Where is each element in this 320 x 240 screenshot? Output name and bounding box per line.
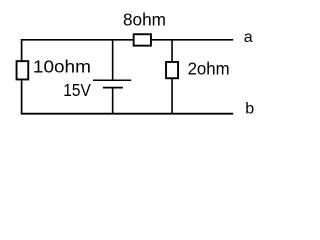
wire left vertical branch	[21, 39, 23, 115]
resistor R1 10ohm box	[17, 61, 29, 79]
svg-text:8ohm: 8ohm	[123, 10, 166, 30]
top wire (node a rail)	[21, 39, 233, 41]
svg-text:b: b	[245, 100, 254, 117]
wire battery branch top	[112, 39, 114, 80]
wire right vertical branch	[171, 39, 173, 114]
svg-text:a: a	[244, 29, 253, 46]
battery V1 positive long plate	[93, 79, 131, 81]
bottom wire (node b rail)	[21, 113, 233, 115]
resistor R3 2ohm box	[166, 62, 178, 78]
svg-text:2ohm: 2ohm	[188, 59, 230, 79]
svg-text:10ohm: 10ohm	[33, 56, 91, 76]
resistor R2 8ohm box	[134, 34, 151, 45]
wire battery branch bottom	[112, 88, 114, 115]
battery V1 negative short plate	[103, 87, 123, 89]
svg-text:15V: 15V	[63, 80, 91, 100]
